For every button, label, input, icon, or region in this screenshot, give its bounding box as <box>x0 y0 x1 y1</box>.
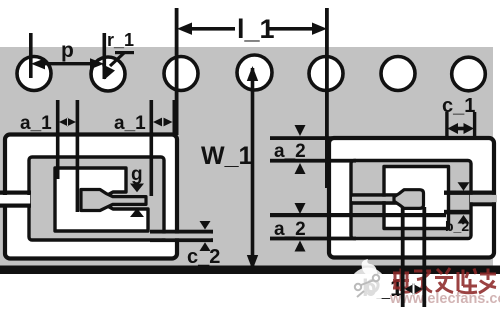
svg-text:a_2: a_2 <box>274 141 306 162</box>
right spiral resonator <box>329 138 497 258</box>
dimension a_2 upper: line 1 <box>270 136 332 140</box>
via hole 6 <box>381 57 415 91</box>
dimension W_1 line <box>251 68 255 268</box>
r_1 leader line <box>110 53 124 66</box>
via hole 5 <box>309 57 343 91</box>
left resonator bottom slot exit line 1 <box>150 230 213 234</box>
svg-text:c_1: c_1 <box>442 95 475 117</box>
via hole 3 <box>164 57 198 91</box>
dimension b_2 bottom arrowhead <box>458 215 470 224</box>
right resonator center hammerhead slot <box>394 190 424 209</box>
right resonator right arm slot cut lower cap <box>470 202 496 206</box>
right resonator exit slot line 2 <box>444 210 472 215</box>
svg-text:r_1: r_1 <box>107 30 134 50</box>
left resonator stub upper edge <box>0 191 31 195</box>
dimension b_1 line 2 <box>422 207 426 307</box>
a_1 left arrows <box>59 118 76 127</box>
r_1 underline <box>115 51 134 54</box>
substrate <box>0 47 493 270</box>
watermark logo b-mark <box>355 275 379 297</box>
char 2 <box>414 271 432 293</box>
a_2 lower top arrowhead <box>295 203 306 214</box>
char 5 <box>479 269 496 294</box>
svg-text:g: g <box>131 164 143 185</box>
dimension b_2 top arrowhead <box>458 182 470 191</box>
svg-text:a_1: a_1 <box>20 113 52 134</box>
svg-text:p: p <box>61 39 74 62</box>
svg-text:W_1: W_1 <box>201 142 253 170</box>
a_2 lower line 2 <box>270 237 356 241</box>
right resonator inner trace (ring B) <box>384 167 449 229</box>
c_1 arrow <box>448 123 475 134</box>
dimension c_2 bottom arrowhead <box>200 242 211 251</box>
dimension l_1 right extension line <box>325 8 329 188</box>
a_2 upper top arrowhead <box>295 125 306 136</box>
a_2 lower bottom arrowhead <box>295 241 306 252</box>
W_1 top arrowhead <box>247 66 258 81</box>
watermark <box>350 259 500 307</box>
via hole 4 <box>237 55 272 90</box>
left resonator bottom slot exit gray core <box>150 234 211 239</box>
b_1 arrows <box>405 284 423 295</box>
W_1 bottom arrowhead <box>247 255 258 270</box>
dimension c_1 line 1 <box>445 112 448 138</box>
svg-text:www.elecfans.com: www.elecfans.com <box>389 291 500 307</box>
via hole 2 <box>91 57 125 91</box>
right resonator right arm slot cut gray <box>470 195 497 202</box>
via holes <box>17 55 485 91</box>
watermark logo leaf <box>362 259 378 277</box>
dimension c_2 top arrowhead <box>200 221 211 230</box>
right resonator strip slot gray core <box>352 197 398 201</box>
right resonator outer slot ring <box>351 161 471 239</box>
dimension g bottom arrowhead <box>130 208 144 217</box>
right resonator strip slot top edge <box>352 193 400 197</box>
dimension p extension line over via 2 <box>103 33 107 79</box>
svg-text:c_2: c_2 <box>187 246 220 268</box>
watermark logo circle <box>350 268 387 305</box>
svg-text:a_1: a_1 <box>114 113 146 134</box>
char 3 <box>435 268 453 293</box>
right resonator exit slot line 1 <box>444 191 496 195</box>
left resonator feed stub white <box>0 195 30 204</box>
left resonator inner trace (ring B) <box>55 168 148 231</box>
svg-text:l_1: l_1 <box>237 14 275 44</box>
left resonator stub lower edge <box>0 204 31 208</box>
dimension l_1 left extension line <box>175 8 179 135</box>
dimension a_1 left pair line 2 <box>76 100 80 212</box>
dimension a_2 lower: line 1 <box>270 213 333 217</box>
left resonator bottom slot exit line 2 <box>150 238 213 242</box>
dimension a_1 right pair line 1 <box>150 100 154 196</box>
dimension a_1 right pair line 2 <box>173 100 177 135</box>
a_2 upper bottom arrowhead <box>295 163 306 174</box>
svg-text:a_2: a_2 <box>274 219 306 240</box>
right resonator metal patch <box>329 138 494 258</box>
r_1 leader arrowhead <box>102 64 115 80</box>
dimension g top arrowhead <box>130 184 144 193</box>
a_1 right arrows <box>153 118 173 127</box>
left resonator metal patch <box>5 135 177 259</box>
dimension p extension line over via 1 <box>29 33 33 78</box>
a_2 upper line 2 <box>270 159 356 163</box>
via hole 7 <box>452 57 486 91</box>
char 1 <box>393 269 410 293</box>
left spiral resonator <box>0 135 177 259</box>
dimension p arrow <box>31 58 104 69</box>
dimension b_1 line 1 <box>401 207 405 307</box>
right resonator strip slot bottom edge <box>352 201 400 205</box>
svg-text:b_2: b_2 <box>445 218 469 234</box>
char 4 <box>458 269 477 294</box>
via hole 1 <box>17 57 51 91</box>
ground plane bottom bar <box>0 266 500 275</box>
dimension c_1 line 2 <box>473 112 476 138</box>
left resonator outer slot ring <box>29 157 164 240</box>
dimension l_1 arrow <box>177 23 327 35</box>
watermark chinese text (stroke mimic) <box>393 268 496 293</box>
left resonator center hammerhead slot <box>81 190 146 211</box>
dimension a_1 left pair line 1 <box>56 100 60 179</box>
right resonator horizontal divider line <box>333 213 446 217</box>
